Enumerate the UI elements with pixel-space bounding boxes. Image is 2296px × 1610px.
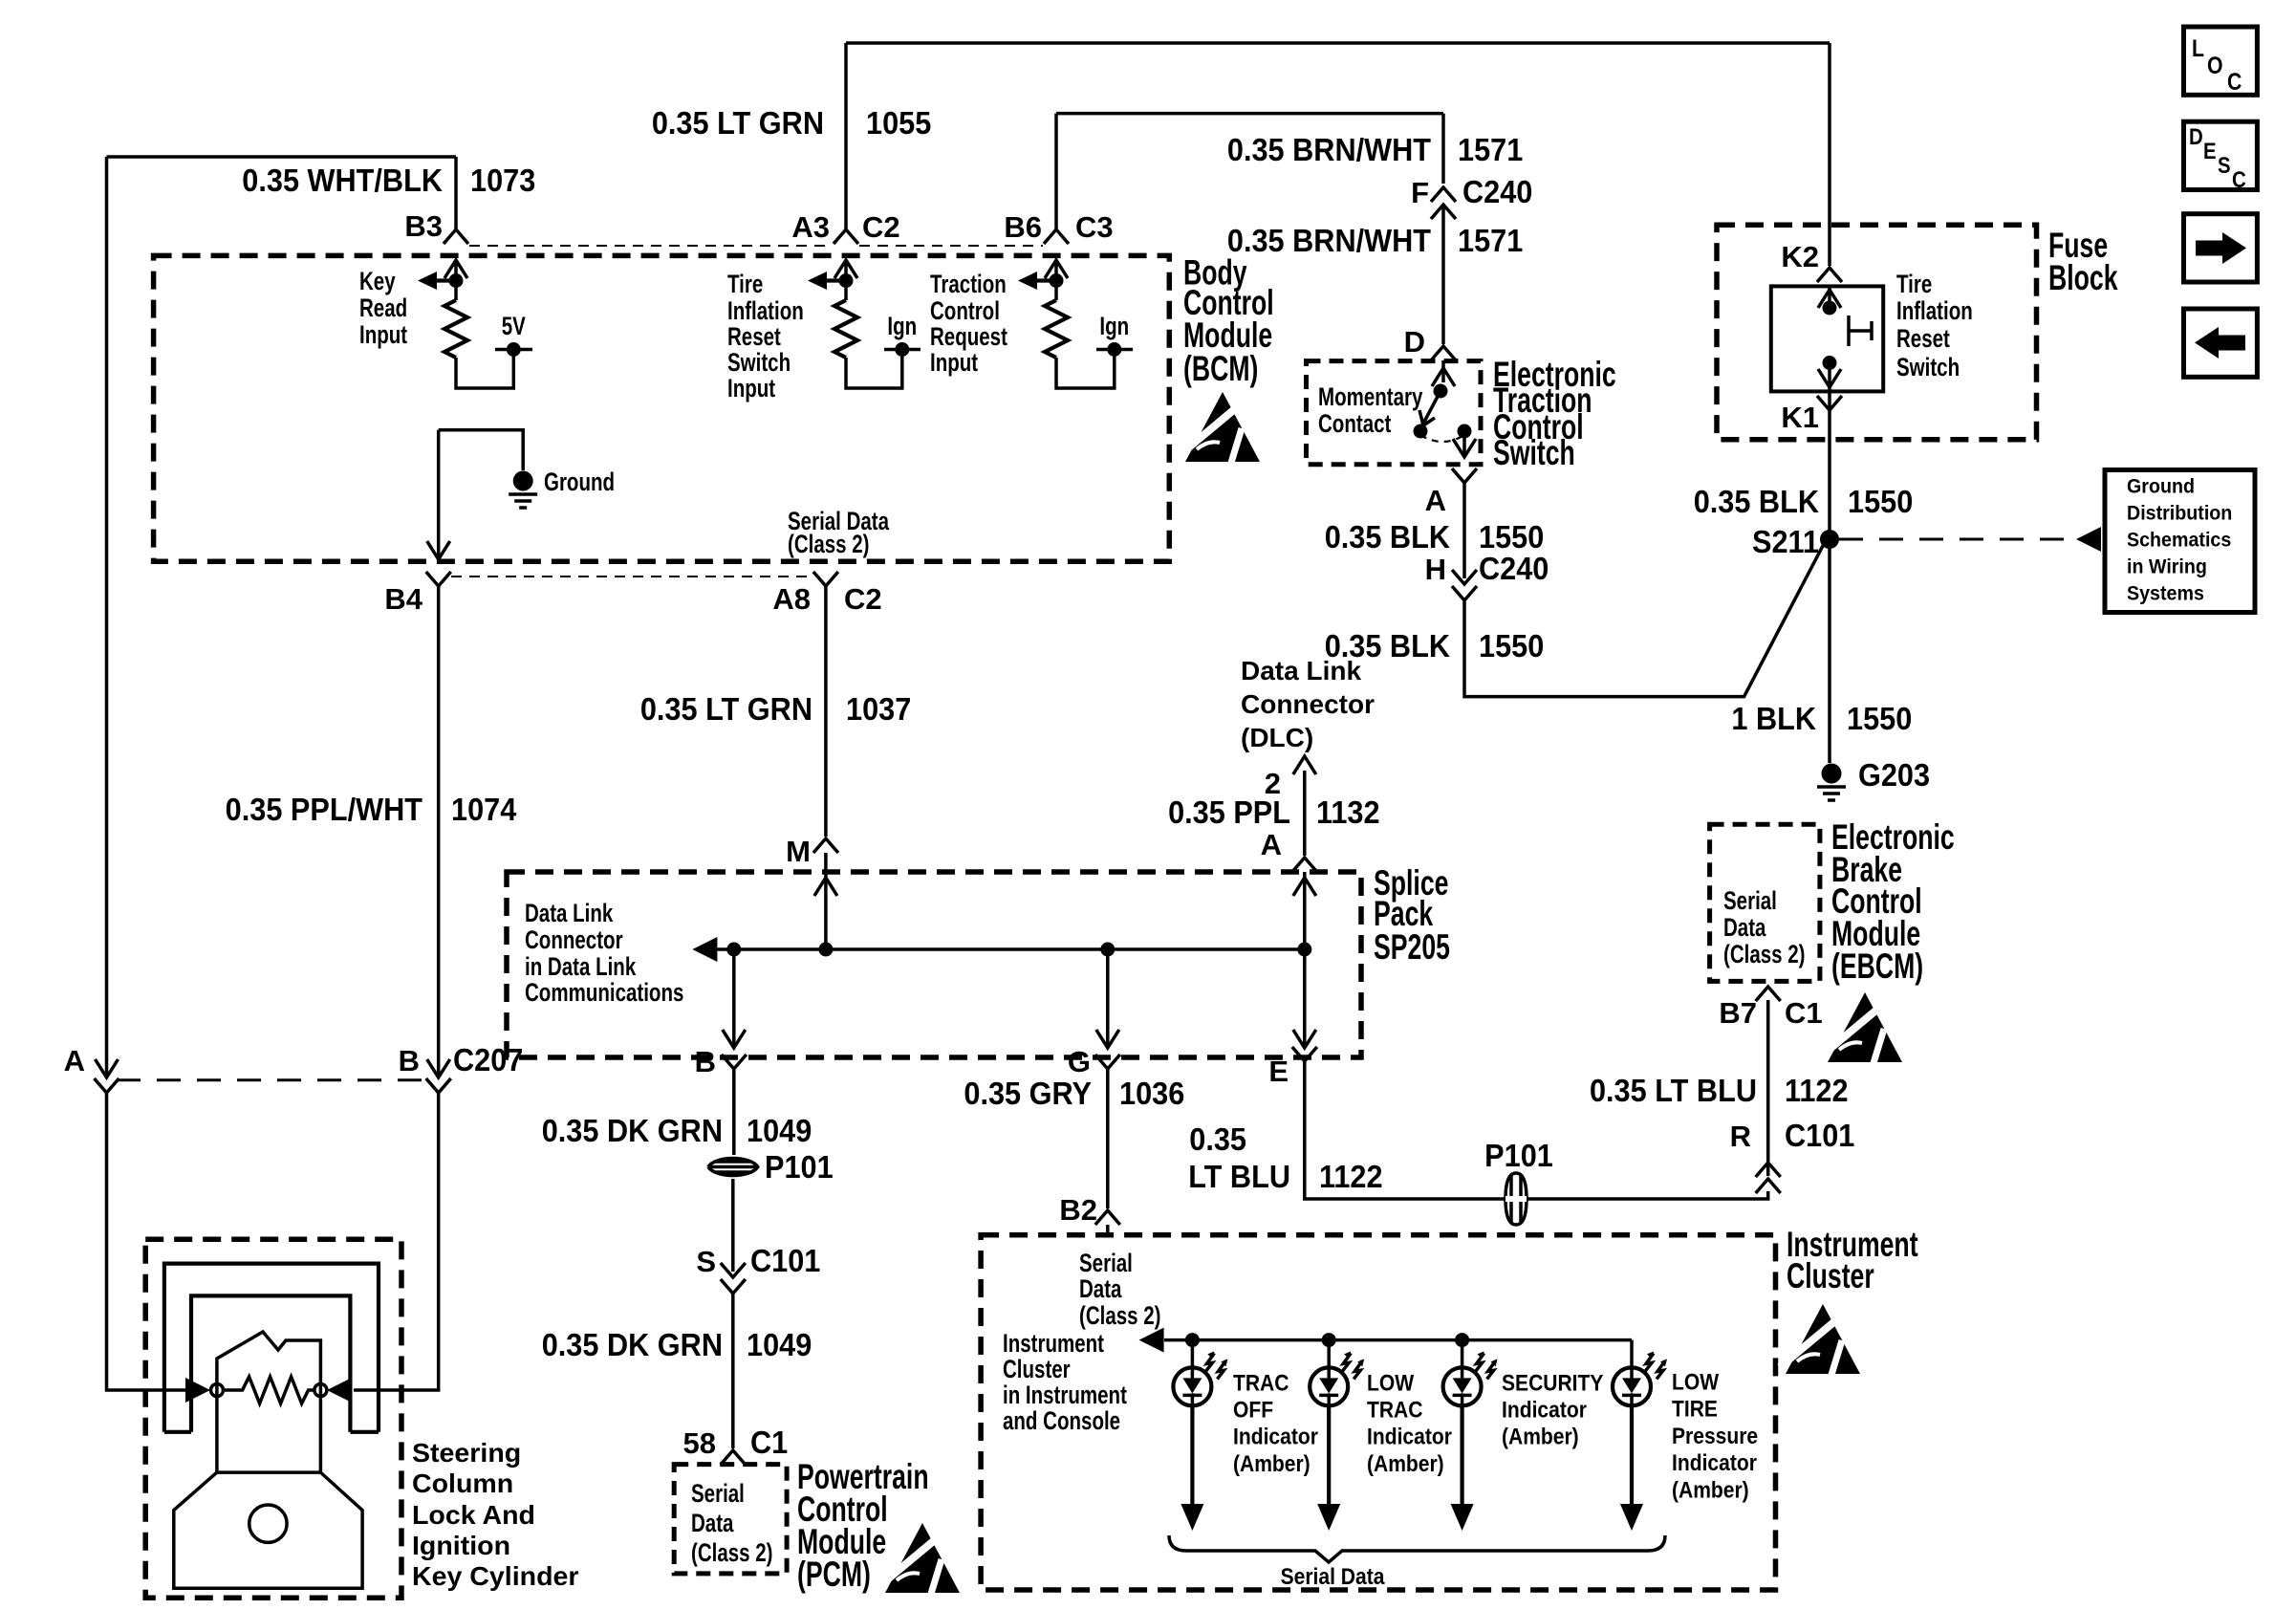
right arrow box (2184, 214, 2258, 282)
key blade outline (217, 1332, 321, 1472)
svg-text:B7: B7 (1719, 996, 1757, 1030)
inline connector P101 (PCM wire) (708, 1159, 758, 1176)
svg-text:Input: Input (359, 320, 407, 349)
connector K1 (1817, 396, 1842, 410)
junction G (1100, 943, 1115, 957)
right contact circle (314, 1384, 327, 1397)
svg-text:Ground: Ground (544, 468, 615, 496)
svg-text:Connector: Connector (525, 925, 623, 954)
svg-text:O: O (2207, 52, 2223, 78)
svg-text:0.35 LT BLU: 0.35 LT BLU (1590, 1073, 1757, 1108)
svg-text:C: C (2232, 166, 2246, 192)
svg-text:Contact: Contact (1318, 409, 1391, 438)
DESC box (2184, 121, 2258, 189)
svg-text:S211: S211 (1752, 524, 1819, 559)
wire P101 to S C101 (731, 1179, 735, 1272)
wire horizontal B6 to F (1056, 112, 1443, 116)
svg-text:Steering: Steering (412, 1437, 521, 1468)
svg-text:R: R (1730, 1120, 1751, 1153)
dashed arc momentary contact (1420, 435, 1464, 442)
switch contacts inside (1828, 286, 1831, 308)
dashed reference wire S211 to ground distribution (1839, 538, 2072, 541)
svg-text:B6: B6 (1004, 210, 1042, 244)
junction B (726, 943, 741, 957)
svg-text:(BCM): (BCM) (1183, 349, 1258, 388)
connector R C101 double chevron (1756, 1163, 1781, 1177)
svg-text:Switch: Switch (1493, 433, 1575, 472)
svg-text:(Amber): (Amber) (1672, 1476, 1749, 1503)
pushbutton H symbol (1849, 315, 1872, 346)
svg-text:C240: C240 (1462, 174, 1532, 209)
key cylinder outer housing (164, 1264, 379, 1432)
svg-text:L: L (2192, 34, 2204, 61)
wire DLC drop (A to splice) (1303, 771, 1307, 856)
svg-text:0.35 DK GRN: 0.35 DK GRN (542, 1327, 723, 1362)
svg-text:Serial Data: Serial Data (1281, 1562, 1385, 1589)
splice S211 (1820, 530, 1839, 549)
svg-text:Communications: Communications (525, 978, 683, 1007)
svg-text:Tire: Tire (727, 270, 763, 298)
svg-text:C3: C3 (1075, 210, 1114, 244)
svg-text:Traction: Traction (930, 270, 1007, 298)
arrow to data link connector (left) (692, 937, 717, 962)
svg-text:C207: C207 (453, 1042, 523, 1077)
arrow to ground distribution schematics (2076, 527, 2101, 552)
svg-text:0.35 WHT/BLK: 0.35 WHT/BLK (242, 163, 443, 198)
svg-text:Cluster: Cluster (1787, 1256, 1874, 1295)
svg-text:LOW: LOW (1672, 1368, 1720, 1395)
svg-text:OFF: OFF (1233, 1396, 1273, 1423)
svg-text:A: A (1425, 484, 1446, 517)
connector A3 C2 (834, 229, 858, 244)
svg-text:Ground: Ground (2127, 475, 2195, 498)
svg-text:in Data Link: in Data Link (525, 952, 637, 981)
EBCM serial data dashed box (1710, 824, 1820, 981)
svg-text:1550: 1550 (1479, 628, 1544, 664)
svg-text:(Amber): (Amber) (1367, 1449, 1444, 1476)
svg-text:(Amber): (Amber) (1502, 1423, 1579, 1449)
svg-text:C1: C1 (750, 1425, 788, 1460)
svg-text:E: E (1268, 1055, 1289, 1088)
svg-text:P101: P101 (765, 1149, 834, 1185)
svg-text:(EBCM): (EBCM) (1831, 946, 1923, 986)
svg-text:Ignition: Ignition (412, 1530, 510, 1560)
svg-text:S: S (696, 1245, 716, 1278)
LED LOW TRAC indicator (1327, 1340, 1331, 1368)
wire K2 drop from top (1828, 43, 1831, 266)
svg-text:D: D (2189, 123, 2203, 149)
svg-text:and Console: and Console (1003, 1406, 1120, 1435)
svg-text:E: E (2203, 138, 2217, 163)
svg-text:P101: P101 (1484, 1138, 1553, 1173)
svg-text:A8: A8 (772, 582, 811, 616)
arrow up to DLC (1293, 756, 1316, 774)
svg-text:(PCM): (PCM) (797, 1555, 871, 1594)
right arrow into resistor (327, 1378, 352, 1403)
resistor tire inflation reset switch input (BCM) (808, 260, 921, 388)
svg-text:Ign: Ign (1099, 312, 1129, 340)
svg-text:1571: 1571 (1458, 223, 1523, 258)
svg-text:C2: C2 (844, 582, 882, 616)
LED SECURITY indicator (1461, 1340, 1464, 1368)
svg-text:K1: K1 (1781, 401, 1819, 434)
svg-text:Key: Key (359, 267, 396, 295)
svg-text:(Class 2): (Class 2) (788, 530, 870, 558)
tire inflation reset switch box (fuse block) (1771, 286, 1883, 391)
svg-text:Reset: Reset (727, 322, 781, 351)
svg-text:58: 58 (683, 1426, 716, 1460)
ESD symbol BCM (1180, 392, 1260, 463)
junction SECURITY (1455, 1333, 1469, 1347)
svg-text:1055: 1055 (866, 105, 931, 141)
connector B4 (426, 572, 451, 586)
svg-text:Switch: Switch (1896, 353, 1960, 381)
housing bottom connectors (164, 1430, 379, 1434)
svg-text:1 BLK: 1 BLK (1731, 701, 1816, 736)
svg-text:Reset: Reset (1896, 324, 1950, 353)
svg-text:Indicator: Indicator (1233, 1423, 1318, 1449)
svg-text:A: A (64, 1044, 85, 1077)
wire 0.35 BLK 1550 (H to S211) (1464, 542, 1825, 697)
svg-text:B: B (695, 1045, 716, 1078)
connector H C240 double chevron (1452, 570, 1477, 584)
ground G203 (1817, 764, 1846, 801)
svg-text:1049: 1049 (747, 1327, 812, 1362)
connector F C240 double chevron (1431, 187, 1456, 202)
connector B3 (BCM C2) (444, 229, 468, 244)
ground distribution schematics box (2105, 470, 2255, 613)
wire 0.35 BLK 1550 (A to H) (1462, 483, 1466, 578)
svg-text:TIRE: TIRE (1672, 1395, 1718, 1422)
wire B6 drop (1054, 114, 1058, 229)
svg-text:K2: K2 (1781, 240, 1819, 273)
svg-text:Data Link: Data Link (1241, 656, 1361, 685)
svg-text:Systems: Systems (2127, 582, 2204, 605)
wire right vertical below C207 B (354, 1093, 439, 1390)
wire E to EBCM horizontal (1305, 1061, 1768, 1199)
connector B (722, 1055, 747, 1069)
svg-text:1122: 1122 (1785, 1073, 1849, 1108)
wire A into splice pack (1303, 872, 1307, 949)
connector M (splice pack) (813, 838, 838, 853)
connector C207 A double chevron (96, 1059, 119, 1077)
svg-text:Data: Data (1079, 1274, 1122, 1303)
svg-text:Inflation: Inflation (1896, 296, 1973, 325)
key head circle (249, 1505, 287, 1542)
svg-text:Tire: Tire (1896, 270, 1932, 298)
svg-text:1550: 1550 (1847, 701, 1912, 736)
connector A (splice pack top) (1292, 858, 1317, 872)
serial data bus in cluster (1164, 1338, 1632, 1342)
svg-text:Cluster: Cluster (1003, 1355, 1071, 1383)
wire right contact down (1462, 431, 1466, 457)
svg-text:G203: G203 (1858, 757, 1930, 793)
junction TRAC OFF (1185, 1333, 1200, 1347)
wire 0.35 LT BLU 1122 (R to B7) (1766, 1000, 1770, 1176)
thin dashed serial data wire A3-B6 (859, 245, 1043, 247)
junction M (818, 943, 833, 957)
svg-text:S: S (2218, 152, 2231, 178)
svg-text:M: M (786, 835, 811, 868)
svg-text:Indicator: Indicator (1367, 1423, 1452, 1449)
svg-text:D: D (1404, 325, 1425, 359)
connector G (1095, 1055, 1120, 1069)
svg-text:Momentary: Momentary (1318, 382, 1423, 411)
connector B2 (instrument cluster) (1095, 1210, 1120, 1225)
connector E (1292, 1047, 1317, 1061)
thin dashed serial data wire B4-A8 (451, 576, 813, 577)
svg-text:G: G (1068, 1045, 1091, 1078)
svg-text:0.35 GRY: 0.35 GRY (964, 1076, 1092, 1111)
svg-text:(Class 2): (Class 2) (1723, 940, 1806, 968)
connector B7 C1 (EBCM) (1756, 987, 1781, 1001)
svg-text:Serial: Serial (691, 1479, 745, 1508)
wire E drop in splice (1303, 949, 1307, 1048)
svg-text:C240: C240 (1479, 551, 1549, 586)
thin dashed serial data wire B3-A3 (469, 245, 833, 247)
svg-text:0.35 PPL: 0.35 PPL (1168, 794, 1290, 830)
svg-text:0.35 BRN/WHT: 0.35 BRN/WHT (1227, 223, 1432, 258)
splice bus wire (717, 947, 1305, 951)
wire B drop in splice (732, 949, 736, 1048)
svg-text:TRAC: TRAC (1233, 1369, 1289, 1396)
svg-text:Block: Block (2048, 258, 2118, 297)
pivot dot (1434, 384, 1448, 399)
connector A (ETC switch) (1452, 468, 1477, 483)
svg-text:Serial: Serial (1079, 1249, 1133, 1277)
svg-text:0.35 BRN/WHT: 0.35 BRN/WHT (1227, 132, 1432, 167)
svg-text:Data: Data (1723, 913, 1766, 942)
connector K2 (1817, 268, 1842, 282)
svg-text:Control: Control (930, 296, 1000, 325)
wire B4 drop inside BCM (437, 430, 441, 559)
left arrow box (2184, 309, 2258, 377)
wire F C240 upper stub (1441, 114, 1445, 184)
wire 0.35 BLK 1550 (K1 to S211) (1828, 391, 1831, 763)
svg-text:Schematics: Schematics (2127, 529, 2231, 552)
wire left vertical below C207 A (107, 1093, 190, 1390)
svg-text:Serial: Serial (1723, 886, 1777, 915)
svg-text:C2: C2 (862, 210, 900, 244)
svg-text:(Class 2): (Class 2) (1079, 1301, 1161, 1330)
key cylinder inner housing (191, 1295, 350, 1431)
inline connector P101 (EBCM wire) (1505, 1173, 1527, 1225)
svg-text:1037: 1037 (846, 691, 911, 727)
svg-text:Instrument: Instrument (1003, 1329, 1104, 1358)
svg-text:C: C (2227, 68, 2242, 95)
dashed wire A to B through C207 (117, 1078, 427, 1081)
ESD symbol PCM (879, 1523, 960, 1594)
connector S C101 double chevron (721, 1263, 746, 1277)
wire 0.35 LT GRN 1037 (A8 to M) (824, 586, 828, 837)
svg-text:SECURITY: SECURITY (1502, 1369, 1603, 1396)
svg-text:A3: A3 (791, 210, 830, 244)
svg-text:Pressure: Pressure (1672, 1422, 1758, 1448)
key head trapezoid (174, 1472, 362, 1588)
fuse block dashed box (1717, 225, 2037, 439)
PCM serial data dashed box (674, 1465, 787, 1574)
lever arm (1419, 391, 1440, 425)
svg-text:1049: 1049 (747, 1113, 812, 1148)
svg-text:0.35 BLK: 0.35 BLK (1325, 519, 1450, 555)
ground symbol (BCM) (509, 471, 537, 509)
LED LOW TIRE pressure indicator (1630, 1340, 1634, 1368)
wire 0.35 DK GRN 1049 (B to P101) (732, 1069, 736, 1155)
connector B6 C3 (1044, 229, 1069, 244)
instrument cluster dashed box (981, 1235, 1775, 1590)
arrow left (cluster bus) (1139, 1328, 1164, 1353)
svg-text:Connector: Connector (1241, 689, 1375, 719)
connector D (ETC switch) (1431, 346, 1456, 360)
wire G drop in splice (1106, 949, 1110, 1048)
svg-text:1571: 1571 (1458, 132, 1523, 167)
svg-text:1132: 1132 (1316, 794, 1380, 830)
svg-text:Input: Input (930, 348, 978, 377)
wire M into splice pack (824, 853, 828, 949)
svg-text:0.35 DK GRN: 0.35 DK GRN (542, 1113, 723, 1148)
svg-text:Switch: Switch (727, 348, 791, 377)
svg-text:1074: 1074 (451, 792, 517, 827)
svg-text:H: H (1425, 553, 1446, 586)
svg-text:B4: B4 (384, 582, 422, 616)
svg-text:A: A (1261, 828, 1282, 861)
svg-text:1550: 1550 (1848, 484, 1913, 519)
wire left outer vertical (WHT/BLK to C207 A) (105, 157, 109, 1077)
svg-text:1122: 1122 (1319, 1159, 1383, 1194)
svg-text:1073: 1073 (470, 163, 535, 198)
svg-text:C101: C101 (750, 1243, 820, 1278)
junction E/A (1297, 943, 1311, 957)
wire 0.35 BRN/WHT 1571 to D (1441, 205, 1445, 344)
LED TRAC OFF indicator (1191, 1340, 1195, 1368)
svg-text:Input: Input (727, 374, 775, 402)
svg-text:C1: C1 (1785, 996, 1823, 1030)
wire 0.35 DK GRN 1049 (C101 to PCM 58) (731, 1294, 735, 1448)
connector A8 C2 (813, 572, 838, 586)
svg-text:Request: Request (930, 322, 1007, 351)
LOC box (2184, 27, 2258, 95)
svg-text:Distribution: Distribution (2127, 502, 2232, 525)
ESD symbol instrument cluster (1780, 1304, 1860, 1375)
svg-text:TRAC: TRAC (1367, 1396, 1422, 1423)
resistor (key cylinder) (224, 1377, 315, 1403)
svg-text:(Class 2): (Class 2) (691, 1538, 773, 1567)
svg-text:Ign: Ign (887, 312, 917, 340)
svg-text:F: F (1411, 176, 1429, 209)
svg-text:Indicator: Indicator (1672, 1449, 1757, 1476)
svg-text:B3: B3 (404, 209, 443, 243)
svg-text:B: B (399, 1044, 420, 1077)
wire B3 drop (454, 157, 458, 229)
left arrow into resistor (185, 1378, 210, 1403)
svg-text:(DLC): (DLC) (1241, 723, 1313, 752)
svg-text:LT BLU: LT BLU (1188, 1159, 1290, 1194)
svg-text:in Wiring: in Wiring (2127, 555, 2207, 578)
junction LOW TRAC (1322, 1333, 1336, 1347)
svg-text:0.35: 0.35 (1189, 1121, 1246, 1157)
svg-text:0.35 BLK: 0.35 BLK (1694, 484, 1819, 519)
left contact dot (1414, 424, 1428, 439)
svg-text:Read: Read (359, 294, 407, 322)
BCM dashed box (154, 255, 1170, 561)
svg-text:Inflation: Inflation (727, 296, 804, 325)
svg-text:Data: Data (691, 1509, 734, 1537)
resistor key read input (BCM) (418, 260, 532, 388)
svg-text:LOW: LOW (1367, 1369, 1415, 1396)
switch lever wire from D (1441, 360, 1445, 382)
wire 0.35 PPL/WHT 1074 (B4 to C207 B) (437, 586, 441, 1077)
svg-text:Lock And: Lock And (412, 1499, 535, 1530)
right contact dot (1458, 424, 1472, 439)
wire B2 stub to cluster (1106, 1225, 1110, 1234)
svg-text:B2: B2 (1059, 1193, 1097, 1227)
ESD symbol EBCM (1822, 992, 1902, 1063)
electronic traction control switch dashed box (1307, 361, 1482, 465)
svg-text:Data Link: Data Link (525, 899, 614, 927)
svg-text:0.35 PPL/WHT: 0.35 PPL/WHT (226, 792, 423, 827)
brace serial data (1169, 1535, 1665, 1562)
resistor traction control request input (BCM) (1018, 260, 1133, 388)
wire 0.35 GRY 1036 (G to B2) (1106, 1069, 1110, 1208)
svg-text:(Amber): (Amber) (1233, 1449, 1310, 1476)
ground branch inside BCM (439, 430, 524, 470)
wire 0.35 WHT/BLK 1073 top-left horizontal (107, 155, 457, 159)
svg-text:0.35 LT GRN: 0.35 LT GRN (652, 105, 824, 141)
splice pack SP205 dashed box (507, 872, 1361, 1057)
svg-text:Column: Column (412, 1468, 513, 1498)
steering column dashed box (145, 1239, 401, 1598)
wire 0.35 LT GRN 1055 vertical to A3 (844, 43, 848, 229)
wire top horizontal A3 to K2 (846, 41, 1830, 45)
svg-text:C101: C101 (1785, 1118, 1854, 1153)
left contact circle (211, 1384, 224, 1397)
connector 58 C1 (PCM) (721, 1450, 746, 1465)
svg-text:0.35 LT GRN: 0.35 LT GRN (640, 691, 812, 727)
svg-text:1550: 1550 (1479, 519, 1544, 555)
svg-text:Key Cylinder: Key Cylinder (412, 1560, 578, 1591)
svg-text:SP205: SP205 (1374, 927, 1450, 967)
svg-text:1036: 1036 (1119, 1076, 1184, 1111)
svg-text:Indicator: Indicator (1502, 1396, 1587, 1423)
svg-text:in Instrument: in Instrument (1003, 1381, 1127, 1409)
connector C207 B double chevron (427, 1059, 450, 1077)
svg-text:5V: 5V (502, 312, 526, 340)
